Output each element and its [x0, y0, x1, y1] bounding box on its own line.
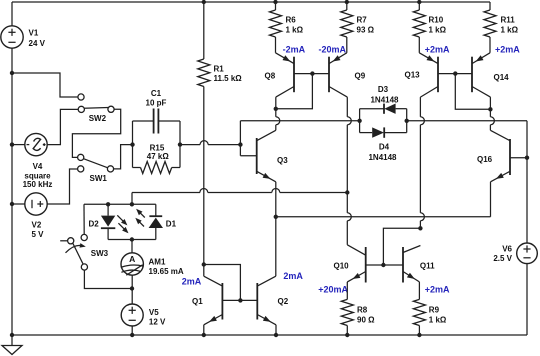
svg-text:D3: D3 — [378, 85, 389, 94]
svg-text:Q9: Q9 — [355, 72, 366, 81]
svg-text:Q11: Q11 — [420, 262, 435, 271]
svg-text:2.5 V: 2.5 V — [493, 254, 512, 263]
transistor Q13 — [437, 57, 439, 92]
wire photodiode to Q9 collector node — [131, 193, 133, 205]
resistor R9 — [418, 282, 420, 300]
svg-text:V5: V5 — [149, 308, 159, 317]
svg-text:R11: R11 — [501, 16, 516, 25]
wire ammeter to V5 — [131, 275, 133, 304]
resistor R11 — [489, 2, 491, 10]
wire V1 tap to SW2 upper throw — [12, 73, 78, 97]
wire SW3 to ammeter bottom — [84, 270, 132, 288]
svg-text:Q14: Q14 — [494, 73, 510, 82]
transistor Q14 — [471, 57, 473, 92]
svg-text:-20mA: -20mA — [318, 45, 346, 55]
diode D1 — [155, 204, 157, 216]
svg-text:2mA: 2mA — [182, 277, 202, 287]
svg-text:5 V: 5 V — [32, 230, 45, 239]
wire left rail upper — [11, 2, 13, 26]
LED network — [84, 203, 156, 205]
wire Q1 collector — [203, 265, 205, 277]
svg-text:R1: R1 — [214, 65, 225, 74]
svg-text:R6: R6 — [286, 16, 297, 25]
wire Q10 Q11 bases — [366, 264, 403, 266]
svg-text:+2mA: +2mA — [425, 45, 450, 55]
wire Q3 base leg — [240, 121, 256, 156]
wire base junction to Q11 collector — [383, 228, 420, 265]
svg-text:V2: V2 — [32, 221, 42, 230]
ground — [11, 335, 13, 346]
wire base junction to Q8 collector — [276, 74, 313, 109]
svg-text:1N4148: 1N4148 — [370, 96, 399, 105]
svg-text:1 kΩ: 1 kΩ — [501, 26, 519, 35]
transistor Q10 — [365, 247, 367, 283]
diode D3 — [359, 109, 361, 133]
svg-text:Q10: Q10 — [334, 262, 350, 271]
resistor R1 — [202, 0, 206, 4]
svg-text:90 Ω: 90 Ω — [357, 316, 375, 325]
svg-text:D2: D2 — [89, 220, 100, 229]
svg-text:Q13: Q13 — [405, 71, 421, 80]
node R15 right — [178, 142, 182, 146]
voltage source V5 — [121, 304, 143, 326]
svg-text:12 V: 12 V — [149, 318, 166, 327]
wire R15 to Q3 base node — [180, 144, 200, 146]
wire top rail V+ — [12, 1, 490, 3]
wire Q2 emitter to rail — [275, 325, 277, 335]
svg-text:2mA: 2mA — [283, 271, 303, 281]
wire V4 to SW2 lower throw — [47, 109, 78, 144]
svg-text:93 Ω: 93 Ω — [357, 26, 375, 35]
wire SW2 common to SW1 upper throw — [72, 109, 120, 157]
capacitor C1 — [133, 120, 154, 122]
svg-text:A: A — [129, 254, 135, 264]
svg-text:D1: D1 — [166, 220, 177, 229]
resistor R8 — [346, 282, 348, 300]
svg-text:SW3: SW3 — [91, 249, 109, 258]
svg-text:SW2: SW2 — [89, 114, 107, 123]
transistor Q1 — [221, 283, 223, 320]
svg-text:10 pF: 10 pF — [146, 99, 167, 108]
light arrows — [117, 215, 125, 223]
svg-text:24 V: 24 V — [29, 39, 46, 48]
node diode clamp right — [405, 119, 409, 123]
svg-text:150 kHz: 150 kHz — [23, 180, 53, 189]
wire input node to diode clamp — [240, 120, 359, 122]
wire output line — [276, 216, 491, 218]
switch SW2 — [78, 94, 84, 100]
svg-text:47 kΩ: 47 kΩ — [147, 152, 170, 161]
wire Q16 emitter to output line — [490, 182, 492, 217]
wire Q1 Q2 bases — [222, 299, 257, 301]
wire V6 to bottom rail — [526, 264, 528, 335]
resistor R7 — [345, 0, 349, 4]
transistor Q9 — [328, 57, 330, 92]
wire R1 to Q1 Q2 mirror — [203, 87, 205, 265]
transistor Q16 — [509, 139, 511, 175]
svg-text:V4: V4 — [33, 162, 43, 171]
wire right rail — [526, 121, 528, 243]
diode D2 — [107, 204, 109, 215]
wire left rail lower — [11, 48, 13, 335]
svg-text:Q1: Q1 — [192, 297, 203, 306]
svg-text:R9: R9 — [429, 306, 440, 315]
wire diode clamp to right rail — [407, 120, 527, 122]
svg-text:R10: R10 — [429, 16, 444, 25]
svg-text:Q8: Q8 — [265, 72, 276, 81]
svg-text:R7: R7 — [357, 16, 368, 25]
diode D4 — [360, 132, 373, 134]
wire Q13 Q14 bases — [438, 73, 472, 75]
svg-text:1 kΩ: 1 kΩ — [429, 26, 447, 35]
resistor R10 — [417, 0, 421, 4]
wire bottom rail — [12, 334, 527, 336]
transistor Q11 — [402, 247, 404, 283]
svg-text:Q16: Q16 — [477, 155, 493, 164]
voltage source V1 — [1, 26, 23, 48]
svg-text:1 kΩ: 1 kΩ — [429, 316, 447, 325]
svg-text:+2mA: +2mA — [425, 285, 450, 295]
svg-text:1N4148: 1N4148 — [368, 153, 397, 162]
wire Q14 collector down — [489, 97, 491, 117]
wire Q8 Q9 bases — [294, 73, 329, 75]
voltage source V2 — [10, 202, 14, 206]
svg-text:19.65 mA: 19.65 mA — [149, 267, 184, 276]
voltage source V4 — [10, 142, 14, 146]
wire Q13 collector down — [419, 97, 421, 117]
wire Q3 emitter to output node — [275, 182, 277, 276]
resistor R6 — [273, 0, 277, 4]
svg-text:C1: C1 — [151, 89, 162, 98]
svg-text:D4: D4 — [379, 143, 390, 152]
svg-text:V6: V6 — [502, 245, 512, 254]
transistor Q2 — [256, 283, 258, 320]
wire V5 to bottom rail — [131, 326, 133, 335]
wire Q3 collector — [275, 125, 277, 131]
node V1 to SW2 throw — [10, 71, 14, 75]
voltage source V6 — [517, 243, 538, 264]
ammeter AM1 — [131, 240, 133, 253]
resistor R15 — [132, 121, 134, 168]
svg-text:Q2: Q2 — [278, 297, 289, 306]
switch SW1 — [78, 154, 84, 160]
wire Q1 emitter to rail — [203, 325, 205, 335]
switch SW3 — [68, 238, 74, 244]
svg-text:+20mA: +20mA — [318, 285, 348, 295]
svg-text:R8: R8 — [357, 306, 368, 315]
wire base junction to Q14 collector — [455, 74, 490, 110]
svg-text:SW1: SW1 — [90, 174, 108, 183]
svg-text:Q3: Q3 — [277, 156, 288, 165]
transistor Q3 — [256, 138, 258, 174]
node diode clamp left — [357, 119, 361, 123]
svg-text:V1: V1 — [29, 28, 39, 37]
wire Q9 collector down — [346, 97, 348, 117]
svg-text:1 kΩ: 1 kΩ — [286, 26, 304, 35]
transistor Q8 — [293, 57, 295, 92]
wire SW1 common to R15 C1 network — [114, 145, 133, 169]
svg-text:-2mA: -2mA — [283, 45, 306, 55]
wire V2 to SW1 lower throw — [47, 169, 77, 204]
svg-text:11.5 kΩ: 11.5 kΩ — [214, 74, 243, 83]
node R15 left — [130, 142, 134, 146]
svg-text:+2mA: +2mA — [495, 45, 520, 55]
svg-text:AM1: AM1 — [149, 257, 166, 266]
